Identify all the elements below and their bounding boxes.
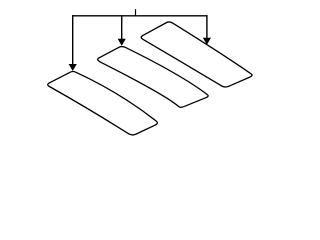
card shape 2 (middle slanted rounded card)	[98, 47, 208, 108]
card shape 1 (bottom-left slanted rounded card)	[48, 72, 158, 135]
arrowhead 2	[118, 39, 126, 46]
wire: arrow shaft 1	[72, 15, 74, 65]
wire: arrow shaft 3	[206, 15, 208, 39]
card shape 3 (top-right slanted rounded card)	[141, 22, 252, 87]
arrowhead 1	[69, 64, 77, 71]
arrowhead 3	[203, 38, 211, 45]
wire: horizontal bus line	[72, 15, 207, 17]
wire: stub tick up from bus	[135, 9, 137, 16]
wire: arrow shaft 2	[121, 15, 123, 40]
